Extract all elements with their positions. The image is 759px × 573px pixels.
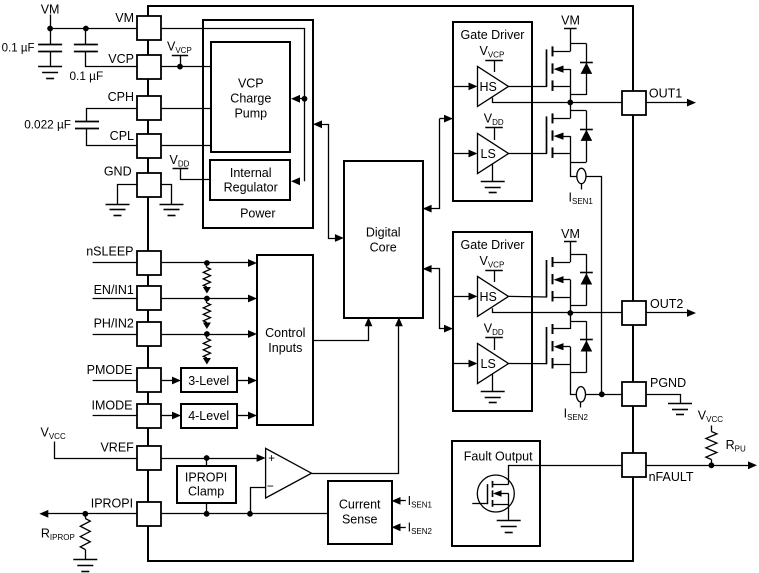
svg-text:CPL: CPL <box>110 129 134 143</box>
wire HS1 gate lead <box>509 86 548 88</box>
pin VCP <box>137 55 161 79</box>
wire Control Inputs to Digital Core <box>314 323 369 341</box>
svg-text:0.1 µF: 0.1 µF <box>70 69 104 83</box>
pin nFAULT <box>622 453 646 477</box>
body diode (low-side, half-bridge 2) <box>570 321 586 323</box>
ground (gate driver 1 LS) <box>492 164 494 181</box>
svg-text:Pump: Pump <box>234 107 267 121</box>
wire VM rail into internal regulator (arrow) <box>291 177 300 185</box>
block Internal Regulator <box>210 160 290 200</box>
body diode (high-side, half-bridge 2) <box>570 254 586 256</box>
svg-text:Inputs: Inputs <box>268 341 302 355</box>
wire PGND ground stub <box>646 395 681 404</box>
pin IPROPI <box>137 502 161 526</box>
svg-text:Regulator: Regulator <box>224 181 278 195</box>
svg-text:VREF: VREF <box>100 441 134 455</box>
svg-text:Gate Driver: Gate Driver <box>461 28 525 42</box>
wire PH/IN2 to Control Inputs <box>161 334 253 336</box>
block Gate Driver 1 <box>453 22 532 201</box>
svg-text:3-Level: 3-Level <box>188 374 229 388</box>
svg-text:VM: VM <box>561 227 580 241</box>
node RPU junction <box>709 462 715 468</box>
wire IPROPI external (arrow out) <box>47 513 137 515</box>
current sensor ISEN1 (ellipse) <box>577 168 586 183</box>
svg-text:Fault Output: Fault Output <box>464 450 533 464</box>
resistor RIPROP <box>85 514 87 519</box>
wire IPROPI pin to Current Sense <box>161 513 328 515</box>
wire output node to low-side drain (half-bridge 2) <box>570 313 572 329</box>
transistor high-side NMOS (half-bridge 2) <box>546 260 548 297</box>
wire HS2 gate lead <box>509 295 548 298</box>
capacitor C1 0.1 uF (VM bypass) <box>50 29 52 45</box>
wire nSLEEP to Control Inputs <box>161 262 253 264</box>
wire OUT1 external arrow <box>646 102 689 104</box>
wire ISEN1 into Current Sense <box>400 500 406 502</box>
resistor internal pulldown (PH/IN2) <box>204 331 210 337</box>
wire PMODE external stub <box>93 380 137 382</box>
wire LS input arrow (gate driver 2) <box>453 363 470 365</box>
svg-text:LS: LS <box>481 147 496 161</box>
pin OUT1 <box>622 91 646 115</box>
wire LS1 gate lead <box>509 153 548 155</box>
wire VVCC to VREF pin <box>55 442 137 459</box>
wire fault FET source to ground <box>508 494 510 522</box>
svg-text:OUT2: OUT2 <box>650 297 683 311</box>
svg-text:Sense: Sense <box>342 513 377 527</box>
wire LS input arrow (gate driver 1) <box>453 153 470 155</box>
node output (half-bridge 2) <box>567 310 573 316</box>
wire VCP pin to charge pump <box>161 66 211 68</box>
wire OUT2 external arrow <box>646 312 689 314</box>
ground (gate driver 2 LS) <box>492 374 494 391</box>
wire ISEN2 into Current Sense <box>400 527 406 529</box>
wire EN/IN1 external stub <box>93 298 137 300</box>
svg-text:VM: VM <box>41 3 60 17</box>
node ISEN junction on PGND rail <box>599 391 605 397</box>
wire EN/IN1 to Control Inputs <box>161 298 253 300</box>
block Current Sense <box>328 481 392 544</box>
wire VM pin to internal rail <box>161 29 305 182</box>
svg-text:VM: VM <box>561 14 580 28</box>
svg-text:Charge: Charge <box>230 92 271 106</box>
transistor high-side NMOS (half-bridge 1) <box>546 49 548 86</box>
svg-text:VCP: VCP <box>108 52 134 66</box>
resistor internal pulldown (EN/IN1) <box>204 296 210 302</box>
wire Digital Core to Gate Driver 1 link <box>444 115 453 123</box>
pin nSLEEP <box>137 251 161 275</box>
op-amp current comparator <box>266 448 312 498</box>
svg-text:CPH: CPH <box>108 90 134 104</box>
wire HS1 phase feedback and OUT1 line <box>493 98 622 103</box>
wire high-side source to output node (half-bridge 2) <box>570 280 572 313</box>
block Gate Driver 2 <box>453 232 532 411</box>
block IPROPI Clamp <box>177 466 236 503</box>
svg-text:4-Level: 4-Level <box>188 409 229 423</box>
wire PMODE to 3-Level block <box>161 380 177 382</box>
wire high-side source to output node (half-bridge 1) <box>570 69 572 102</box>
block Power (outer) <box>203 20 313 228</box>
svg-text:+: + <box>268 453 275 465</box>
block Fault Output <box>452 441 540 546</box>
buffer LS (gate driver 1) <box>478 134 509 174</box>
wire Power to Digital Core link <box>313 120 322 128</box>
wire VM to high-side drain (half-bridge 1) <box>570 28 572 51</box>
ground (PGND) <box>668 403 692 405</box>
node VM rail to charge pump tap <box>302 96 308 102</box>
node RIPROP junction <box>82 511 88 517</box>
svg-text:IPROPI: IPROPI <box>91 496 133 510</box>
wire PH/IN2 external stub <box>93 334 137 336</box>
svg-text:nFAULT: nFAULT <box>649 470 694 484</box>
svg-text:LS: LS <box>481 357 496 371</box>
wire CPL pin to charge pump <box>161 145 211 147</box>
svg-text:0.022 µF: 0.022 µF <box>24 118 71 132</box>
svg-text:GND: GND <box>104 165 132 179</box>
buffer HS (gate driver 2) <box>478 276 509 316</box>
resistor internal pulldown (nSLEEP) <box>204 260 210 266</box>
pin GND <box>137 173 161 197</box>
body diode (high-side, half-bridge 1) <box>570 43 586 45</box>
wire IPROPI to comparator minus <box>251 488 266 514</box>
svg-text:HS: HS <box>480 80 497 94</box>
capacitor C3 0.022 uF (CPH-CPL flying cap) <box>87 109 137 122</box>
svg-text:Current: Current <box>339 498 381 512</box>
block Digital Core <box>344 161 423 318</box>
wire low-side 1 source to ISEN1 <box>571 136 577 176</box>
svg-text:IMODE: IMODE <box>92 398 133 412</box>
wire output node to low-side drain (half-bridge 1) <box>570 102 572 118</box>
pin IMODE <box>137 404 161 428</box>
svg-text:Digital: Digital <box>366 226 401 240</box>
chip outline (device boundary) <box>148 6 633 561</box>
wire GND pin right ground stub <box>161 185 172 205</box>
block 4-Level <box>181 404 237 428</box>
wire VM rail into VCP charge pump <box>299 98 305 100</box>
svg-text:PMODE: PMODE <box>87 363 133 377</box>
node clamp bottom junction <box>204 511 210 517</box>
svg-text:−: − <box>267 479 274 493</box>
node VVCP junction <box>177 64 183 70</box>
wire IMODE to 4-Level block <box>161 415 177 417</box>
pin PH/IN2 <box>137 322 161 346</box>
pin EN/IN1 <box>137 286 161 310</box>
svg-text:EN/IN1: EN/IN1 <box>94 283 134 297</box>
ground (C1) <box>38 66 62 68</box>
transistor fault-output NMOS (circled) <box>477 475 514 512</box>
svg-text:PH/IN2: PH/IN2 <box>94 316 134 330</box>
wire Digital Core to Gate Driver 2 link <box>423 265 432 273</box>
node VM bulk cap junction <box>47 26 53 32</box>
node VM-VCP cap junction <box>83 26 89 32</box>
body diode (low-side, half-bridge 1) <box>570 110 586 112</box>
wire IMODE external stub <box>93 415 137 417</box>
current sensor ISEN2 (ellipse) <box>576 387 585 402</box>
svg-text:Internal: Internal <box>230 166 272 180</box>
svg-text:Gate Driver: Gate Driver <box>461 238 525 252</box>
wire 3-Level to Control Inputs <box>237 380 253 382</box>
wire VREF pin to comparator + <box>161 458 261 460</box>
wire HS input arrow (gate driver 1) <box>453 86 470 88</box>
svg-text:PGND: PGND <box>650 376 686 390</box>
svg-text:VCP: VCP <box>238 77 264 91</box>
buffer HS (gate driver 1) <box>478 66 509 106</box>
svg-text:Core: Core <box>370 241 397 255</box>
wire 4-Level to Control Inputs <box>237 415 253 417</box>
node output (half-bridge 1) <box>567 100 573 106</box>
wire HS2 phase feedback and OUT2 line <box>493 308 622 312</box>
block Control Inputs <box>257 255 313 425</box>
pin CPL <box>137 134 161 158</box>
wire LS2 gate lead <box>509 363 548 365</box>
pin VM <box>137 16 161 40</box>
svg-text:Power: Power <box>240 207 275 221</box>
resistor RPU pull-up <box>711 426 713 432</box>
ground (fault output) <box>497 520 521 522</box>
wire GND pin left ground stub <box>118 185 137 205</box>
wire nSLEEP external stub <box>93 262 137 264</box>
pin PGND <box>622 382 646 406</box>
pin OUT2 <box>622 301 646 325</box>
wire ISEN1 down to PGND rail <box>586 177 602 395</box>
pin PMODE <box>137 368 161 392</box>
svg-text:0.1 µF: 0.1 µF <box>2 43 35 55</box>
block VCP Charge Pump <box>211 42 290 152</box>
ground (GND pin, right) <box>160 204 184 206</box>
svg-text:VM: VM <box>115 11 134 25</box>
ground (RIPROP) <box>73 559 97 561</box>
wire ISEN2 to PGND pin <box>586 394 622 396</box>
pin VREF <box>137 446 161 470</box>
wire HS input arrow (gate driver 2) <box>453 296 470 298</box>
wire low-side 2 source to ISEN2 <box>571 347 577 395</box>
wire VM rail to VM pin <box>50 28 137 30</box>
svg-text:Clamp: Clamp <box>188 485 224 499</box>
node comparator minus junction <box>247 511 253 517</box>
ground (GND pin, left) <box>106 204 130 206</box>
svg-text:IPROPI: IPROPI <box>185 471 227 485</box>
svg-text:HS: HS <box>480 290 497 304</box>
wire VREF junction to IPROPI clamp <box>206 458 208 467</box>
transistor low-side NMOS (half-bridge 2) <box>546 327 548 364</box>
wire fault FET drain to nFAULT <box>509 466 622 485</box>
wire clamp bottom stub <box>206 504 208 514</box>
svg-text:Control: Control <box>265 326 305 340</box>
transistor low-side NMOS (half-bridge 1) <box>546 116 548 153</box>
capacitor C2 0.1 uF (VM to VCP) <box>85 29 87 45</box>
svg-text:OUT1: OUT1 <box>649 87 682 101</box>
block 3-Level <box>181 368 237 392</box>
node VREF to clamp junction <box>204 455 210 461</box>
wire comparator output to Digital Core <box>312 323 399 474</box>
pin CPH <box>137 96 161 120</box>
svg-text:nSLEEP: nSLEEP <box>86 245 133 259</box>
wire nFAULT external line <box>646 465 750 467</box>
buffer LS (gate driver 2) <box>478 344 509 384</box>
wire VM to high-side drain (half-bridge 2) <box>570 242 572 262</box>
wire CPH pin to charge pump <box>161 108 211 110</box>
